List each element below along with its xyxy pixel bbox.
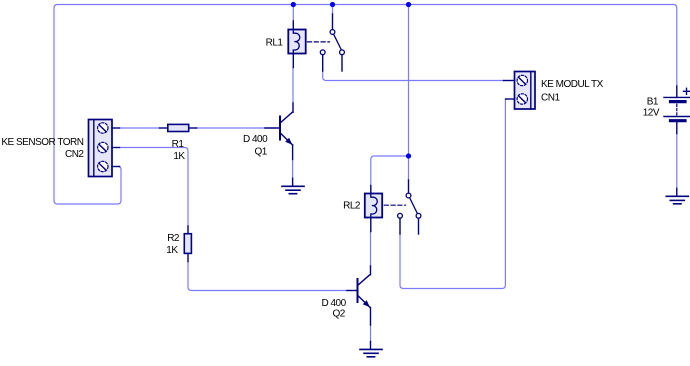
svg-text:1K: 1K bbox=[173, 151, 185, 162]
CN2 pin 2 stub bbox=[112, 147, 120, 149]
wire: RL1 switch left contact to CN1 pin1 bbox=[323, 71, 504, 81]
junction dot at RL2 node bbox=[406, 153, 411, 158]
wire: RL1 coil top drop from rail bbox=[292, 5, 294, 22]
svg-text:KE SENSOR TORN: KE SENSOR TORN bbox=[1, 137, 83, 148]
svg-text:KE MODUL TX: KE MODUL TX bbox=[541, 79, 604, 90]
resistor R1 bbox=[160, 124, 197, 131]
CN1 screw terminal 1 bbox=[517, 75, 527, 85]
wire: RL2 node down to switch common bbox=[408, 156, 410, 180]
CN2 screw terminal 2 bbox=[98, 142, 108, 152]
wire: R2 bottom to Q2 base bbox=[188, 262, 347, 291]
plus sign of B1 bbox=[684, 88, 690, 94]
CN2 pin 3 stub bbox=[112, 166, 120, 168]
svg-text:Q2: Q2 bbox=[333, 309, 346, 320]
wire: RL2 node to RL2 coil top bbox=[371, 156, 409, 186]
dashed actuator link RL2 bbox=[384, 204, 405, 206]
wire: Q2 emitter to ground bbox=[370, 325, 372, 342]
CN2 screw terminal 3 bbox=[98, 161, 108, 171]
CN1 screw terminal 2 bbox=[517, 94, 527, 104]
wire: R1 to Q1 base bbox=[197, 127, 265, 129]
wire: RL1 switch common drop from rail bbox=[332, 5, 334, 15]
transistor Q2 bbox=[347, 266, 371, 325]
wire: RL1 coil bottom to Q1 collector bbox=[292, 68, 294, 104]
wire: battery bottom to ground bbox=[676, 134, 678, 189]
svg-text:CN2: CN2 bbox=[65, 149, 84, 160]
CN2 screw terminal 1 bbox=[98, 123, 108, 133]
wire: RL2 coil bottom to Q2 collector bbox=[370, 232, 372, 267]
relay coil RL1 bbox=[288, 21, 305, 68]
svg-text:R1: R1 bbox=[172, 139, 185, 150]
ground below Q1 bbox=[282, 178, 304, 193]
junction dot on rail at RL1 coil bbox=[291, 2, 296, 7]
connector CN1 body bbox=[515, 72, 536, 110]
svg-text:D 400: D 400 bbox=[322, 298, 347, 309]
svg-text:R2: R2 bbox=[167, 233, 180, 244]
connector CN2 body bbox=[89, 120, 113, 177]
relay RL2 switch bbox=[398, 180, 421, 234]
wire: RL2 switch left contact to CN1 pin2 bbox=[400, 99, 507, 289]
wire: CN2 pin1 to R1 bbox=[120, 127, 160, 129]
dashed actuator link RL1 bbox=[308, 41, 330, 43]
svg-text:CN1: CN1 bbox=[541, 92, 560, 103]
junction dot on rail at runner bbox=[406, 2, 411, 7]
resistor R2 bbox=[184, 226, 191, 262]
wire: vertical runner from rail to RL2 node bbox=[408, 5, 410, 157]
svg-text:B1: B1 bbox=[647, 97, 659, 108]
relay coil RL2 bbox=[365, 186, 382, 232]
relay RL1 switch bbox=[320, 14, 344, 71]
CN1 pin 1 stub bbox=[504, 80, 515, 82]
junction dot on rail at RL1 switch bbox=[330, 2, 335, 7]
wire: CN2 pin2 to R2 top bbox=[120, 148, 189, 227]
wire: top power rail with left loop to CN2 pin3 and right drop to battery bbox=[54, 5, 677, 205]
svg-text:D 400: D 400 bbox=[243, 134, 268, 145]
wire: Q1 emitter to ground bbox=[292, 160, 294, 179]
svg-text:1K: 1K bbox=[166, 245, 178, 256]
ground below Q2 bbox=[360, 342, 382, 357]
CN2 pin 1 stub bbox=[112, 127, 120, 129]
CN1 pin 2 stub bbox=[506, 98, 515, 100]
svg-text:RL2: RL2 bbox=[343, 200, 361, 211]
svg-text:Q1: Q1 bbox=[255, 147, 268, 158]
battery B1 bbox=[664, 86, 690, 134]
svg-text:12V: 12V bbox=[643, 108, 660, 119]
ground below battery bbox=[666, 188, 688, 204]
transistor Q1 bbox=[265, 103, 293, 160]
svg-text:RL1: RL1 bbox=[266, 38, 284, 49]
